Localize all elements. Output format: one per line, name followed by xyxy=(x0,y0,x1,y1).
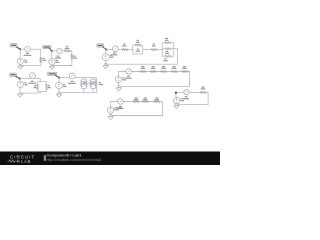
svg-text:Componenti / Lab1: Componenti / Lab1 xyxy=(47,153,83,158)
svg-text:LAB: LAB xyxy=(21,159,31,164)
svg-text:http://circuitlab.com/cman/lmt: http://circuitlab.com/cman/lmt2e/iq2 xyxy=(47,158,102,162)
